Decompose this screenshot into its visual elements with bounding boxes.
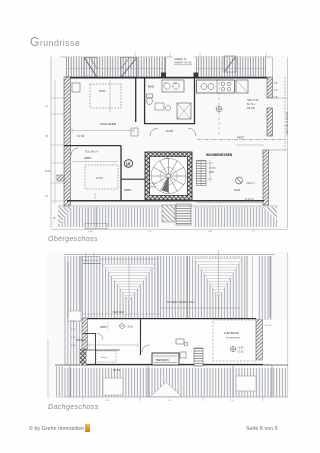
plan1 wall pillars at band gap <box>161 73 166 79</box>
terrace corner wedge right <box>263 207 277 220</box>
plan2 room top wall <box>83 318 256 320</box>
wall abst right <box>120 146 122 201</box>
plan1 top outer wall <box>65 77 267 79</box>
plan2 right wall <box>256 319 263 360</box>
svg-text:15: 15 <box>126 162 132 167</box>
terrace bracket detail <box>85 224 107 229</box>
svg-text:9.573: 9.573 <box>150 183 156 185</box>
kitchen counter <box>197 80 235 93</box>
svg-text:BL 69 +: BL 69 + <box>247 103 256 106</box>
svg-text:+ 9.16: + 9.16 <box>126 326 133 329</box>
stairwell outer walls <box>145 152 192 200</box>
svg-text:LUFTRAUM: LUFTRAUM <box>224 331 239 335</box>
plan1 top dim ticks <box>66 57 266 77</box>
plan1 dim marks wohnen <box>207 77 264 182</box>
plan1 right outer wall middle <box>267 108 273 136</box>
svg-text:1.2: 1.2 <box>45 105 49 108</box>
svg-text:6M 9/8: 6M 9/8 <box>113 370 121 372</box>
title Grundrisse <box>30 34 80 49</box>
hall door arc 2 <box>188 128 196 136</box>
svg-text:M7/10: M7/10 <box>150 186 157 188</box>
plan2 luftraum sym <box>230 346 235 351</box>
svg-text:WOHNZIMMER: WOHNZIMMER <box>226 338 241 340</box>
plan2 bottom white box 2 <box>236 376 256 391</box>
plan2 dim line over rooms <box>83 313 160 315</box>
plan2 room bottom wall <box>55 364 288 366</box>
svg-text:+ 5.84: + 5.84 <box>237 348 244 350</box>
svg-text:BETON W. 9b x 5M/T: BETON W. 9b x 5M/T <box>285 112 288 135</box>
bad toilet <box>147 94 153 98</box>
svg-text:ANSPR. IM SG: ANSPR. IM SG <box>174 61 192 65</box>
svg-text:+ 5.52: + 5.52 <box>237 352 244 354</box>
svg-text:ABST.: ABST. <box>124 188 132 192</box>
plan2 bottom dim numbers <box>105 400 234 402</box>
svg-text:3.6: 3.6 <box>45 135 49 138</box>
plan2 top dim ticks <box>83 264 219 319</box>
plan1 roof truss brace 1 <box>84 58 97 78</box>
plan1 roof hatch band right <box>196 57 266 78</box>
plan1 roof truss brace 3 <box>224 56 236 72</box>
plan1 bottom window line <box>196 202 263 204</box>
wall schlafen right <box>135 77 137 122</box>
plan1 dim line schlafen <box>72 80 134 133</box>
footer copyright <box>29 426 84 432</box>
plan1 right outer wall lower <box>263 150 269 205</box>
plan1 top edge line <box>60 56 272 58</box>
svg-text:ABST.: ABST. <box>100 325 108 329</box>
first ridge dashed line <box>197 139 286 141</box>
wall abst top <box>64 145 121 147</box>
plan2 wall mid vertical <box>140 319 142 355</box>
svg-text:ABST.: ABST. <box>84 156 92 160</box>
plan1 scan background <box>50 56 288 230</box>
plan1 bottom outer wall <box>67 200 264 202</box>
plan1 dim line abst <box>72 162 118 200</box>
caption Obergeschoss <box>48 236 98 243</box>
plan1 right outer wall upper <box>267 77 273 98</box>
svg-text:B 1.55: B 1.55 <box>265 325 272 327</box>
abst1 dashed box <box>85 165 118 189</box>
plan2 gableA top dim marks <box>82 253 100 263</box>
plan2 dashed box <box>96 351 116 362</box>
hall misc marks <box>131 128 138 136</box>
svg-text:2.9: 2.9 <box>230 400 234 402</box>
svg-text:3.85: 3.85 <box>208 231 213 233</box>
terrace corner wedge left <box>58 207 72 227</box>
plan2 bottom gap white <box>55 366 288 368</box>
svg-text:96/60: 96/60 <box>99 89 106 93</box>
stairwell inner <box>150 157 188 196</box>
caption Dachgeschoss <box>48 404 99 411</box>
house number 15 circle <box>124 160 132 168</box>
terrace entry steps <box>176 204 191 225</box>
svg-text:2.8: 2.8 <box>148 231 152 233</box>
plan1 left outer wall <box>64 77 70 206</box>
wall bad left <box>144 77 146 124</box>
plan2 white strip right of gable B <box>248 256 259 318</box>
plan2 roof hatch field <box>64 256 272 397</box>
svg-text:DB 400: DB 400 <box>247 107 256 110</box>
plan2 bottom ticks <box>83 397 263 401</box>
svg-text:FLUR: FLUR <box>166 129 173 133</box>
svg-text:TROCKN.: TROCKN. <box>76 340 87 342</box>
straight stair beside stairwell <box>197 161 207 186</box>
schlafen furniture <box>72 83 80 92</box>
svg-text:2.1: 2.1 <box>45 195 49 198</box>
bad small fixtures <box>155 103 164 110</box>
svg-text:B 9/5: B 9/5 <box>45 170 51 173</box>
wall abst2 top <box>121 178 145 180</box>
svg-text:FIRST: FIRST <box>237 135 245 139</box>
svg-text:BAD: BAD <box>148 85 154 89</box>
plan1 left dimension line <box>50 57 52 228</box>
plan2 upper dim line <box>160 307 240 309</box>
plan1 bottom terrace edge line <box>58 205 278 207</box>
footer logo <box>85 424 90 432</box>
plan2 +9.16 sym <box>120 324 125 329</box>
plan2 left wall <box>82 318 88 349</box>
schlafen door arc <box>71 148 78 155</box>
chimney circle <box>236 177 243 184</box>
footer page number <box>246 426 278 432</box>
plan2 gable A <box>99 259 158 301</box>
plan1 bottom dimension line <box>51 229 288 231</box>
svg-text:GIEBEL M.: GIEBEL M. <box>174 57 187 61</box>
svg-text:9x7x0: 9x7x0 <box>96 176 103 180</box>
plan2 wall trockn top <box>83 333 96 335</box>
plan1 band edge lines <box>65 57 67 77</box>
svg-text:1.38: 1.38 <box>88 231 93 233</box>
plan2 bottom white box 1 <box>103 378 123 395</box>
svg-text:WOHNEN/ESSEN: WOHNEN/ESSEN <box>206 153 233 157</box>
svg-text:2.26: 2.26 <box>105 400 110 402</box>
plan2 luftraum dashed <box>213 320 256 361</box>
bad washer dryer <box>162 80 184 92</box>
plan1 roof hatch band left <box>66 57 166 78</box>
plan1 top margin ticks <box>135 52 266 57</box>
plan2 gable B <box>194 251 243 298</box>
svg-text:9x7x0: 9x7x0 <box>101 357 108 359</box>
svg-text:SCHNEEF. BERGLASUNG: SCHNEEF. BERGLASUNG <box>167 301 195 304</box>
plan2 right eaves white <box>263 320 287 364</box>
plan2 room dim line <box>89 318 138 347</box>
svg-text:SCHLAFEN: SCHLAFEN <box>100 122 116 126</box>
plan2 fixtures <box>180 352 186 358</box>
plan2 scan background <box>47 252 289 398</box>
svg-text:HELLO 55 ·: HELLO 55 · <box>247 99 260 102</box>
plan2 door arcs <box>97 334 103 340</box>
plan2 room band background <box>83 318 263 365</box>
svg-text:SOL 6M x A: SOL 6M x A <box>85 151 98 154</box>
bad shower <box>177 103 191 119</box>
schlafen bed dashed <box>90 84 121 108</box>
plan2 bottom edge <box>57 396 288 398</box>
wall bad bottom <box>144 123 195 125</box>
plan2 treppenhaus box <box>152 353 179 365</box>
svg-text:3.5: 3.5 <box>168 400 172 402</box>
plan1 dimension chain left inner <box>51 80 64 204</box>
svg-text:(4.10 m): (4.10 m) <box>245 198 254 201</box>
plan2 top edge <box>64 254 274 256</box>
svg-text:1 M6: 1 M6 <box>164 158 170 160</box>
left small hatched box <box>57 175 64 181</box>
plan2 right edge line <box>287 253 289 397</box>
balcony divider lines <box>272 97 287 99</box>
balcony right rail vertical <box>272 57 274 98</box>
plan2 bottom dormer triangle <box>150 382 182 397</box>
plan1 roof truss brace 2 <box>121 58 137 78</box>
kitchen fridge <box>236 80 248 93</box>
hall door arc 1 <box>150 128 158 136</box>
plan2 chimney box <box>68 311 81 321</box>
plan2 left wall lower crosshatch <box>80 349 87 365</box>
plan2 wall left vertical <box>95 333 97 365</box>
terrace hatch right <box>193 207 277 227</box>
plan2 left edge line <box>47 340 49 398</box>
plan2 wall y350 <box>83 349 120 351</box>
svg-text:1.2: 1.2 <box>252 231 256 233</box>
wohnen circle sym <box>216 106 222 112</box>
svg-text:WM: WM <box>173 83 177 85</box>
wall bad right <box>194 77 196 124</box>
svg-text:TREPPENH.: TREPPENH. <box>156 359 170 362</box>
plan1 bottom dim numbers <box>88 231 256 233</box>
svg-text:0.110 m: 0.110 m <box>246 182 254 185</box>
plan2 stair <box>194 348 203 366</box>
terrace steps diagonal <box>162 205 175 222</box>
plan1 right dimension line <box>287 57 289 228</box>
spiral staircase <box>151 159 186 194</box>
svg-text:SEM SEIN: SEM SEIN <box>113 312 124 314</box>
svg-text:9x9/8: 9x9/8 <box>234 189 241 192</box>
balcony railing dashed <box>284 77 286 150</box>
plan1 roof label box <box>173 56 194 66</box>
plan2 bottom band left strip <box>56 367 64 398</box>
plan2 rafter accent lines <box>68 256 272 397</box>
terrace hatch left <box>58 207 159 227</box>
svg-text:F2 9/9: F2 9/9 <box>77 134 85 138</box>
